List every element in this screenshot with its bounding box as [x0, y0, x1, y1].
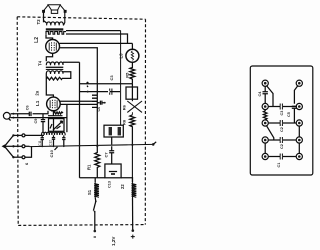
capacitor C4	[263, 86, 268, 103]
solder tag 5R	[296, 153, 302, 159]
svg-text:T3: T3	[36, 19, 41, 25]
resistor R3 grid leak	[54, 112, 64, 114]
svg-text:L2: L2	[34, 37, 40, 43]
capacitor C1 panel	[280, 154, 282, 160]
wire row3 link	[268, 122, 296, 124]
svg-text:C9: C9	[34, 119, 38, 124]
svg-text:R8: R8	[122, 119, 127, 125]
solder tag 2L	[262, 103, 268, 109]
svg-text:22: 22	[120, 184, 125, 189]
speaker LS	[43, 5, 67, 14]
input jack Q	[3, 112, 10, 120]
svg-text:C7: C7	[103, 152, 108, 158]
wire T4 primary to bus	[63, 61, 80, 63]
terminal external	[152, 142, 156, 146]
wire row5 link	[268, 156, 296, 158]
wire tag4L to tag5L	[264, 143, 266, 153]
capacitor C2 panel	[280, 120, 282, 126]
wire input top	[11, 111, 49, 114]
capacitor C6	[97, 101, 105, 105]
valve L3	[126, 43, 139, 62]
tuning line	[30, 144, 154, 146]
svg-text:C10: C10	[49, 149, 54, 157]
svg-text:C1: C1	[277, 163, 281, 168]
wire T4 to valve L1 grid	[46, 74, 53, 98]
capacitor C5	[292, 106, 297, 123]
svg-text:C6: C6	[97, 107, 101, 112]
wire L2 cathode to T4	[46, 53, 52, 61]
terminal plus	[131, 229, 135, 238]
capacitor C13	[62, 135, 65, 146]
svg-text:C6: C6	[25, 105, 29, 110]
capacitor C2b panel	[280, 137, 282, 143]
choke T1	[94, 182, 99, 197]
svg-text:R1: R1	[87, 164, 92, 170]
valve L1	[47, 97, 61, 111]
potentiometer box	[126, 84, 138, 99]
resistor R8	[130, 115, 135, 145]
wire switch top contact	[25, 134, 44, 136]
resistor R1	[95, 146, 100, 178]
solder tag 3R	[296, 120, 302, 126]
wire bottom rail	[80, 177, 105, 179]
solder tag 5L	[262, 153, 268, 159]
node dot	[96, 145, 98, 147]
oscillator coil L5	[92, 95, 97, 107]
wire row4 link	[268, 139, 296, 141]
terminal strip panel	[250, 66, 312, 175]
wire row2 link	[268, 106, 296, 108]
node trimmer junctions	[41, 145, 64, 147]
wire speaker leads	[43, 12, 45, 22]
svg-text:C13: C13	[108, 181, 112, 188]
svg-text:C3: C3	[280, 111, 284, 116]
wire tag3R to tag4R	[298, 126, 300, 137]
wire R8 bus to T2	[131, 145, 133, 183]
svg-text:T4: T4	[37, 60, 42, 66]
svg-text:L3: L3	[119, 53, 124, 59]
solder tag 1L	[262, 80, 268, 86]
wire switch low contact	[25, 146, 32, 157]
capacitor C11	[41, 135, 44, 146]
wire input bottom	[11, 117, 67, 119]
resistor R panel	[263, 110, 267, 120]
wire box to T2	[121, 178, 132, 183]
svg-text:C3: C3	[109, 75, 114, 81]
capacitor C12	[52, 135, 55, 146]
solder tag 4L	[262, 137, 268, 143]
wave switch fan	[3, 134, 25, 159]
svg-text:C12: C12	[49, 140, 53, 146]
valve L2	[46, 40, 60, 54]
battery box B1	[105, 164, 121, 178]
capacitor C3	[108, 89, 112, 95]
svg-text:S1: S1	[87, 189, 92, 195]
switch S1	[93, 198, 96, 213]
wire to minus terminal	[94, 212, 96, 231]
svg-text:C11: C11	[38, 140, 42, 146]
wire T3 to valve L2 anode	[46, 35, 53, 40]
wire tag3L diagonal	[267, 126, 274, 140]
wire tag4R to tag5R	[298, 143, 300, 153]
node dots input	[12, 113, 14, 115]
node dot	[131, 144, 133, 146]
IF transformer T4	[46, 62, 64, 80]
wire tag1R to row2	[294, 86, 297, 104]
wire L1 cathode	[51, 110, 56, 115]
oscillator coil assembly	[42, 119, 66, 136]
wire switch mid contact	[25, 145, 30, 147]
wire block to HT line	[111, 137, 113, 145]
solder tag 2R	[296, 103, 302, 109]
label C10	[49, 147, 58, 158]
node dot	[87, 91, 89, 93]
wire to plus terminal	[132, 198, 134, 230]
svg-text:R6: R6	[122, 104, 127, 110]
wire AVC line	[80, 91, 121, 93]
capacitor C16	[29, 112, 31, 117]
HT bus vertical	[120, 31, 122, 126]
jack R6 cross	[127, 99, 142, 115]
wire L2 grid to bus	[59, 48, 97, 146]
wire T3 to HT bus	[66, 30, 121, 32]
wire L1 anode pair	[60, 101, 92, 104]
transformer T3	[44, 12, 67, 35]
svg-text:L1: L1	[35, 100, 40, 106]
wire bus left vertical	[79, 62, 81, 178]
solder tag 1R	[296, 80, 302, 86]
chassis dashed enclosure	[17, 17, 145, 226]
wire T1 drop	[94, 178, 96, 183]
capacitor C9	[48, 115, 63, 117]
svg-text:C2: C2	[280, 144, 284, 149]
svg-text:R5: R5	[124, 72, 129, 78]
wire T4 secondary link	[62, 72, 71, 79]
solder tag 3L	[262, 120, 268, 126]
capacitor C3 panel	[280, 104, 282, 110]
wire T3 secondary to anode line	[66, 34, 128, 43]
wire tag1L to row2	[267, 86, 273, 107]
terminal minus	[94, 230, 97, 237]
wire grid coil riser	[66, 104, 68, 132]
electrolytic block C14	[104, 125, 123, 137]
node junction cross	[86, 82, 88, 87]
solder tag 4R	[296, 137, 302, 143]
resistor R5	[130, 62, 135, 84]
wire L2 anode to L3 line	[59, 42, 132, 44]
svg-text:C5: C5	[287, 112, 291, 117]
svg-text:C2: C2	[280, 127, 284, 132]
node dot	[79, 145, 81, 147]
svg-text:1,2V: 1,2V	[111, 236, 116, 246]
choke T2	[132, 182, 137, 198]
svg-text:2a: 2a	[35, 90, 40, 95]
capacitor C7	[109, 146, 114, 164]
capacitor C15 aerial	[41, 114, 45, 133]
wire screen line	[80, 83, 133, 85]
